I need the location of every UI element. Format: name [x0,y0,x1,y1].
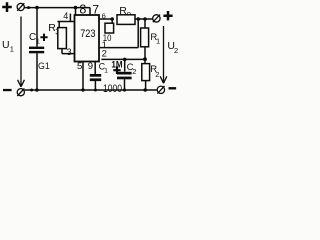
pin 4 tick [69,14,71,22]
output terminal bottom-right [157,86,164,94]
junction at terminal [27,6,30,9]
svg-text:2: 2 [155,70,159,79]
svg-text:U: U [2,39,10,51]
capacitor C3 [90,74,101,81]
svg-text:2: 2 [174,46,178,55]
svg-text:3: 3 [67,47,72,57]
resistor R2 [142,64,150,81]
junction pin 8 [74,6,78,10]
svg-text:1: 1 [36,36,40,45]
wire R3 top to pin 4 [57,22,74,28]
svg-text:G1: G1 [38,61,50,71]
label R3 [48,22,60,37]
resistor sense box pin 10 [105,23,114,33]
wire C1 bottom lead [36,53,38,90]
svg-text:4: 4 [63,11,68,21]
svg-text:723: 723 [80,28,96,40]
svg-text:1: 1 [10,45,14,54]
svg-text:1: 1 [156,37,160,46]
svg-text:2: 2 [102,48,107,59]
junction C2 tap [123,58,127,62]
svg-text:1: 1 [104,68,108,75]
capacitor C2 [117,72,132,79]
wire C3 top lead pin 9 [94,62,96,75]
junction C2 bottom [123,88,126,91]
arrow U2 [160,26,167,83]
resistor R3 [58,28,67,49]
junction C1 bottom tap [35,88,39,92]
svg-text:9: 9 [88,61,93,72]
wire bottom rail [25,89,157,91]
label R1 [150,32,160,46]
wire C1 top lead [36,8,38,47]
C2 polarity plus [113,66,120,74]
input terminal bottom-left [17,88,24,96]
wire R3 bottom to pin 3 [62,49,75,54]
wire C2 bottom lead [124,79,126,90]
junction R1 top [143,17,147,21]
pin 6 stub [99,18,112,20]
svg-text:1000: 1000 [103,83,123,95]
label U1 [2,39,14,54]
pin 5 lead to ground rail [82,62,84,91]
wire top rail [24,7,90,9]
junction R1 R2 [143,57,147,61]
label R0 [119,5,131,18]
plus sign input positive [2,2,12,12]
output terminal top-right [153,15,160,23]
pin 7 stub [89,8,91,15]
junction pin 5 ground [81,88,84,91]
minus sign output [169,87,177,89]
resistor R0 [117,15,135,25]
svg-text:8: 8 [79,3,86,17]
wire output sense W2 [101,58,146,60]
pin 8 stub [75,8,77,15]
resistor R1 [141,28,149,47]
wire C2 top lead [124,59,126,71]
op-amp U1 regulator IC 723 [75,15,100,62]
wire R2 top lead [144,59,146,63]
wire R1 top lead [144,19,146,28]
junction R2 bottom [143,88,147,92]
junction at bottom-left terminal [30,89,33,92]
wire C3 bottom lead [94,81,96,90]
capacitor C1 [29,47,44,54]
label R2 [150,64,159,79]
label C2 [127,62,137,76]
svg-text:6: 6 [102,12,106,21]
wire R2 bottom lead [145,81,147,90]
svg-text:5: 5 [77,61,82,72]
label C1 [29,32,40,45]
wire R0 to output terminal [135,18,153,20]
wire junction to sense box [111,19,113,23]
minus sign input [3,89,12,91]
wire R1 bottom lead [144,47,146,60]
junction C1 tap [35,6,39,10]
junction riser pin 2 [137,17,141,21]
junction C3 ground [94,89,97,92]
plus sign output [163,11,172,20]
svg-text:2: 2 [132,67,136,76]
junction pin 6 [110,17,114,21]
C1 polarity plus [40,34,47,41]
label C3 [99,62,109,75]
input terminal top-left [17,3,24,11]
svg-text:7: 7 [92,2,99,16]
arrow U1 [18,17,25,87]
wire pin 2 to riser [99,19,138,48]
label U2 [167,40,178,55]
